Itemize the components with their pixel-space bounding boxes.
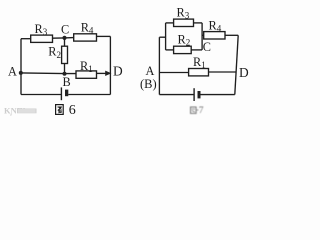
wire bottom-rail-left circuit1 xyxy=(21,94,61,96)
wire right-rail circuit2 xyxy=(235,35,238,94)
svg-text:A: A xyxy=(146,64,155,78)
wire R4-to-corner xyxy=(97,35,111,37)
wire R2-to-B xyxy=(64,64,66,74)
node C junction dot (left circuit) xyxy=(62,36,66,40)
wire R3-to-C xyxy=(53,37,74,40)
wire bus-to-R3 circuit2 xyxy=(166,22,174,24)
wire R4-to-corner circuit2 xyxy=(225,34,238,36)
wire right-rail circuit1 xyxy=(109,36,111,94)
svg-text:A: A xyxy=(8,65,17,79)
wire R2-to-Cbus circuit2 xyxy=(191,49,202,51)
wire stub to parallel bus circuit2 xyxy=(159,36,165,38)
battery long plate (left circuit) xyxy=(60,87,62,100)
battery short thick plate (right circuit) xyxy=(198,91,201,98)
wire left-rail circuit1 xyxy=(20,39,22,95)
wire bottom-rail-right circuit2 xyxy=(201,94,235,96)
wire Cbus-to-R4 circuit2 xyxy=(202,34,204,36)
resistor R2 (left circuit, vertical) xyxy=(62,46,68,63)
svg-text:D: D xyxy=(239,65,249,80)
battery long plate (right circuit) xyxy=(193,88,195,101)
wire A-to-R1 circuit2 xyxy=(159,72,188,74)
resistor R1 (left circuit) xyxy=(76,71,97,78)
resistor R4 (left circuit) xyxy=(74,34,97,41)
resistor R1 (right circuit) xyxy=(189,69,209,76)
svg-text:B: B xyxy=(63,75,71,89)
wire R3-to-Cbus circuit2 xyxy=(194,22,203,24)
resistor R3 (right circuit) xyxy=(174,19,194,26)
wire left parallel bus circuit2 xyxy=(165,23,167,50)
node B junction dot xyxy=(63,72,67,76)
battery short thick plate (left circuit) xyxy=(65,90,68,97)
wire bottom-rail-left circuit2 xyxy=(159,94,193,96)
wire left-rail circuit2 xyxy=(158,37,160,94)
caption glyph 图 (left) xyxy=(56,105,64,115)
arrowhead at D (left circuit) xyxy=(105,71,111,76)
resistor R3 (left circuit) xyxy=(31,35,53,42)
wire C-to-R2 xyxy=(64,38,66,46)
wire R1-to-D circuit2 xyxy=(209,71,237,73)
svg-text:C: C xyxy=(61,23,69,37)
svg-text:C: C xyxy=(203,40,211,54)
wire bus-to-R2 circuit2 xyxy=(166,49,174,51)
wire A-to-B-to-R1 xyxy=(21,72,76,75)
svg-text:7: 7 xyxy=(199,106,204,116)
node A junction dot xyxy=(19,71,23,75)
wire bottom-rail-right circuit1 xyxy=(68,94,110,96)
svg-text:(B): (B) xyxy=(140,77,157,91)
wire R1-to-D with arrow xyxy=(97,72,106,74)
resistor R2 (right circuit) xyxy=(174,46,192,53)
resistor R4 (right circuit) xyxy=(204,32,225,39)
wire top-left circuit1 xyxy=(21,38,31,40)
svg-text:D: D xyxy=(113,64,123,79)
wire node C bus circuit2 xyxy=(201,23,203,50)
watermark bottom-left xyxy=(4,106,37,116)
svg-text:6: 6 xyxy=(69,103,76,118)
caption 图7 blurred (right) xyxy=(191,106,204,116)
